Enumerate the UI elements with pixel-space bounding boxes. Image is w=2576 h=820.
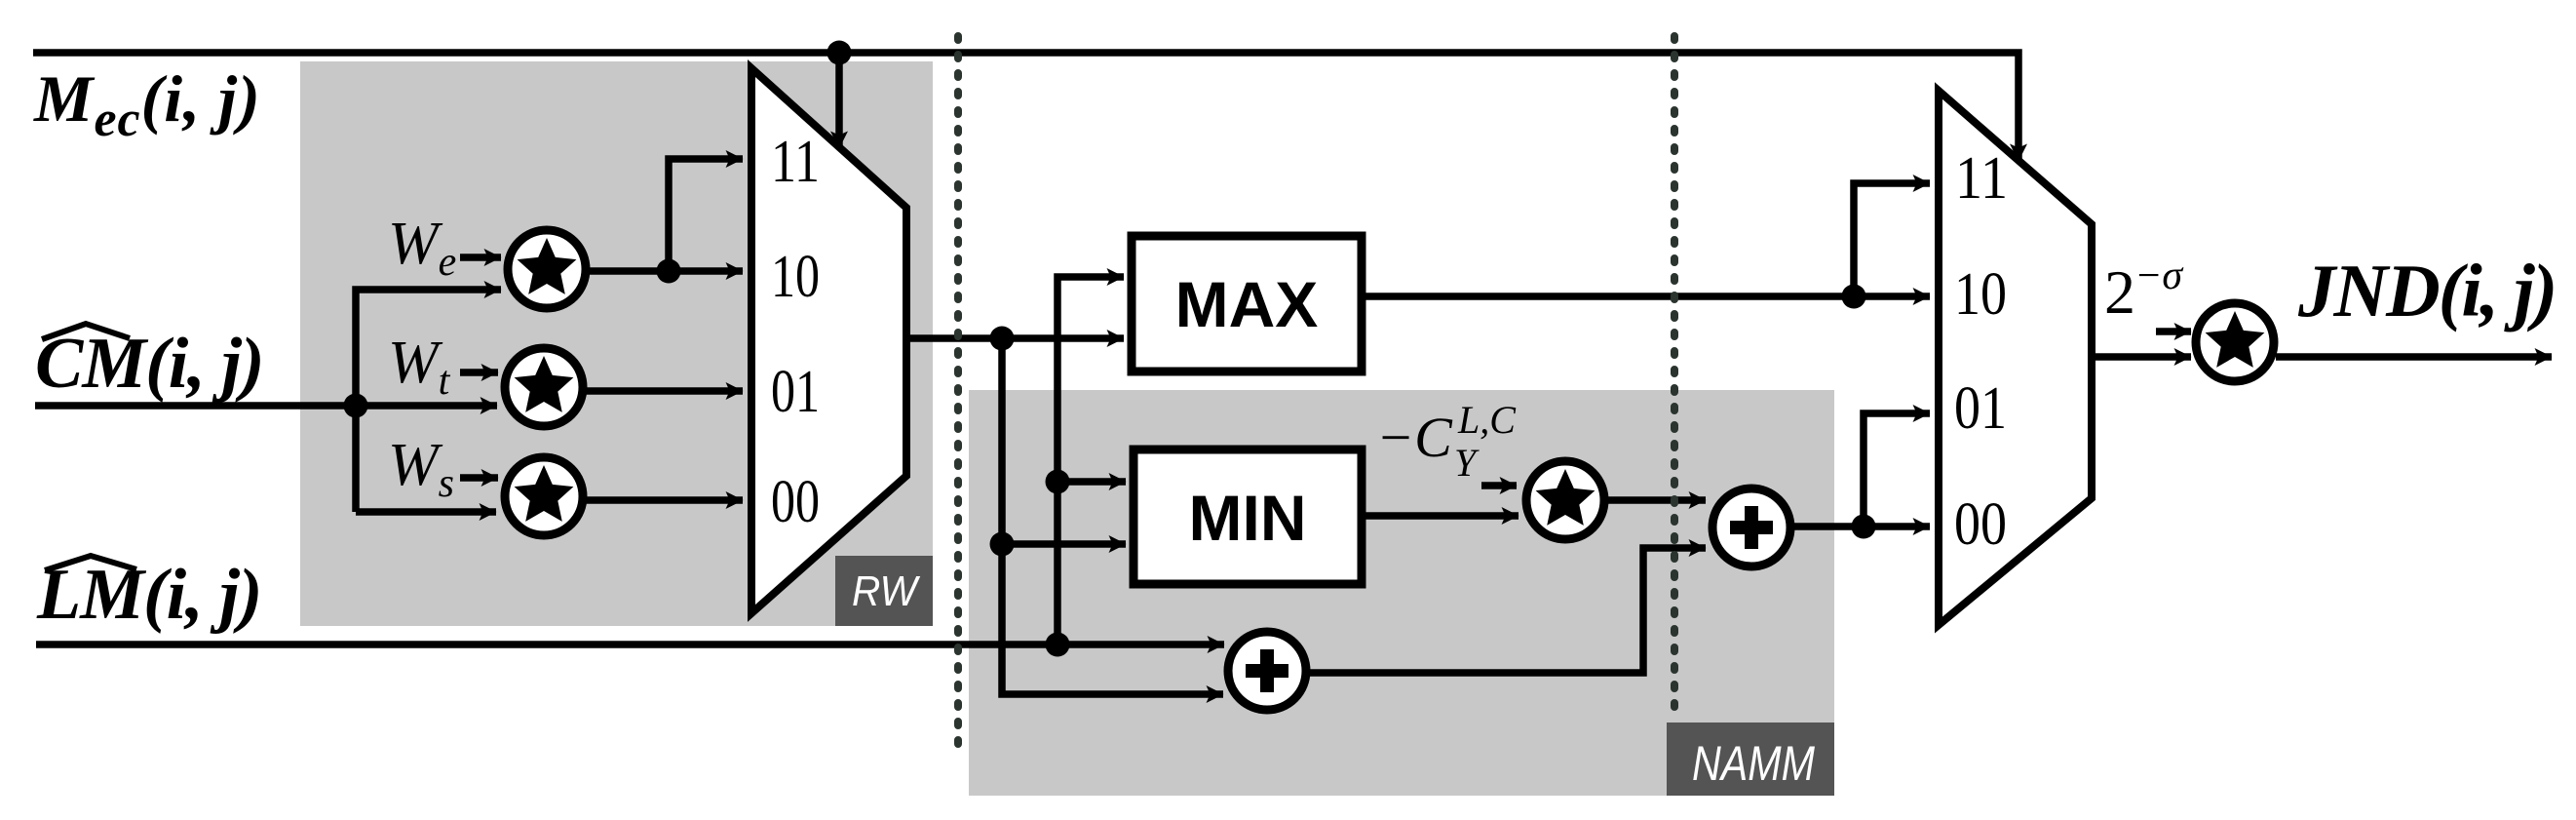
- svg-text:00: 00: [771, 469, 820, 535]
- svg-text:01: 01: [1954, 375, 2007, 442]
- svg-text:00: 00: [1954, 491, 2007, 558]
- svg-text:Mec(i, j): Mec(i, j): [33, 61, 261, 147]
- svg-text:Y: Y: [1454, 441, 1480, 485]
- svg-text:−C: −C: [1376, 406, 1453, 469]
- svg-text:CM(i, j): CM(i, j): [35, 324, 264, 404]
- svg-text:JND(i, j): JND(i, j): [2297, 249, 2556, 332]
- svg-text:11: 11: [1955, 145, 2008, 212]
- svg-text:10: 10: [1954, 261, 2007, 328]
- svg-text:MAX: MAX: [1175, 268, 1319, 340]
- svg-text:MIN: MIN: [1189, 482, 1307, 554]
- svg-text:RW: RW: [852, 567, 920, 615]
- svg-text:11: 11: [771, 129, 820, 195]
- svg-text:L,C: L,C: [1457, 398, 1517, 442]
- svg-text:10: 10: [771, 244, 820, 310]
- svg-text:01: 01: [771, 359, 820, 425]
- svg-text:LM(i, j): LM(i, j): [36, 555, 261, 635]
- svg-text:−σ: −σ: [2134, 254, 2184, 298]
- svg-text:2: 2: [2104, 257, 2135, 327]
- svg-text:NAMM: NAMM: [1692, 736, 1815, 791]
